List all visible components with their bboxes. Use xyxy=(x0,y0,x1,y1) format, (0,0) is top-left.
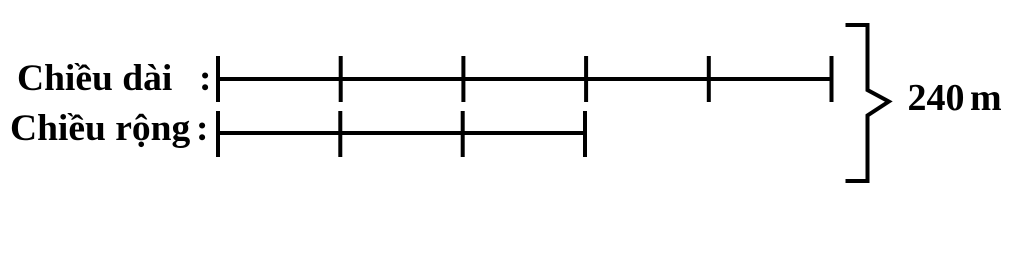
svg-text::: : xyxy=(196,108,209,149)
top bar tick 2 xyxy=(339,56,343,102)
bottom bar tick 3 xyxy=(461,111,465,157)
top bar tick 3 xyxy=(461,56,465,102)
bottom bar tick 1 xyxy=(216,111,220,157)
svg-text:240: 240 xyxy=(908,77,965,119)
top bar tick 1 xyxy=(216,56,220,102)
top bar line (length) xyxy=(218,77,832,81)
top bar tick 6 xyxy=(830,56,834,102)
svg-text:Chiều rộng: Chiều rộng xyxy=(10,108,190,149)
brace for total 240 m xyxy=(846,25,889,181)
svg-text:Chiều dài: Chiều dài xyxy=(17,58,172,99)
bottom bar tick 4 xyxy=(583,111,587,157)
bottom bar line (width) xyxy=(218,131,585,135)
svg-text:m: m xyxy=(970,77,1002,119)
top bar tick 5 xyxy=(707,56,711,102)
svg-text::: : xyxy=(199,58,212,99)
bottom bar tick 2 xyxy=(338,111,342,157)
top bar tick 4 xyxy=(584,56,588,102)
